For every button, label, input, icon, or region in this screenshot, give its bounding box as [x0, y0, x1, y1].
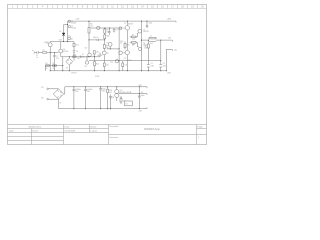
- svg-text:R12: R12: [76, 45, 79, 47]
- svg-text:C4: C4: [163, 63, 165, 65]
- svg-text:C3: C3: [151, 63, 153, 65]
- transistor Q9 clamp: [85, 61, 88, 64]
- capacitor C11 electrolytic: [84, 87, 87, 109]
- resistor R9 zobel: [147, 44, 149, 48]
- capacitor C10 electrolytic: [73, 87, 76, 109]
- wire fb bus lower: [46, 65, 63, 67]
- input terminal J1: [34, 52, 35, 54]
- resistor R4: [88, 28, 90, 33]
- svg-text:T4: T4: [63, 49, 65, 51]
- svg-text:BC556: BC556: [71, 28, 76, 30]
- svg-text:R2: R2: [46, 63, 48, 65]
- svg-text:T8: T8: [143, 43, 145, 45]
- svg-text:22k: 22k: [77, 58, 80, 60]
- svg-text:~: ~: [45, 94, 46, 96]
- wire bridge right up: [64, 87, 65, 94]
- svg-text:Name: Name: [33, 130, 40, 132]
- transistor T21 regulator: [115, 93, 119, 97]
- svg-text:R5b: R5b: [106, 36, 109, 38]
- zener D20: [110, 96, 112, 98]
- svg-text:In: In: [32, 50, 33, 52]
- capacitor C14: [108, 31, 110, 33]
- resistor R5b: [104, 35, 106, 39]
- wire bias chain x119.1: [118, 28, 120, 71]
- ruler numbers: [12, 6, 205, 9]
- svg-text:T21: T21: [120, 97, 123, 99]
- svg-text:100u: 100u: [163, 66, 167, 68]
- svg-text:B1: B1: [60, 102, 62, 104]
- wire mid bus y60.7: [89, 60, 161, 62]
- capacitor C2: [53, 56, 55, 57]
- svg-text:30V: 30V: [41, 87, 44, 89]
- svg-text:Looser: Looser: [91, 129, 98, 132]
- svg-text:L1: L1: [150, 36, 152, 38]
- resistor R14: [94, 62, 96, 66]
- svg-text:470: 470: [106, 48, 109, 50]
- title block texts: [9, 125, 203, 139]
- svg-text:R1: R1: [43, 50, 45, 52]
- capacitor C13: [138, 87, 141, 109]
- inductor L1 with R: [149, 37, 156, 41]
- svg-text:1u: 1u: [36, 57, 38, 59]
- svg-text:R16: R16: [120, 41, 123, 43]
- svg-text:T5: T5: [124, 23, 126, 25]
- svg-text:R5: R5: [106, 30, 108, 32]
- wire fet rail: [141, 21, 143, 71]
- wires regulator: [111, 87, 148, 109]
- capacitor C12b rail: [146, 25, 148, 26]
- terminal AC2: [47, 98, 49, 100]
- transistor Q3 vas: [88, 53, 92, 57]
- transistor T20 regulator: [115, 90, 119, 94]
- transistor Q6 bias: [119, 51, 123, 55]
- svg-text:Date: Date: [9, 129, 14, 132]
- wire miller: [89, 39, 97, 41]
- wire LED branch top: [64, 25, 68, 34]
- wire bus cap x114: [113, 28, 115, 30]
- svg-text:T14: T14: [110, 62, 113, 64]
- wire LED branch bottom: [63, 36, 65, 42]
- terminal AC1: [47, 88, 49, 90]
- wire diamond top stub: [68, 57, 70, 58]
- wire output node: [142, 39, 150, 41]
- svg-text:LS1: LS1: [174, 50, 177, 52]
- svg-text:BD140: BD140: [127, 60, 132, 62]
- svg-text:T12: T12: [122, 28, 125, 30]
- title block: [8, 125, 207, 145]
- resistor R11: [68, 38, 71, 40]
- resistor R3 fb: [53, 65, 57, 67]
- wire cap C2 branch: [53, 53, 55, 56]
- svg-text:68: 68: [71, 38, 73, 40]
- resistor R13 fb series: [73, 56, 76, 58]
- transistor T7 mosfet: [138, 29, 142, 33]
- capacitor C7 fb: [80, 56, 81, 58]
- driver/output stage: [127, 21, 172, 71]
- svg-text:100: 100: [96, 51, 99, 53]
- wire driver mid: [126, 30, 128, 50]
- VAS stage: [89, 21, 125, 71]
- wire bias R stub: [124, 42, 126, 44]
- svg-text:100n: 100n: [141, 95, 145, 97]
- wire r14 stubs: [94, 57, 96, 71]
- svg-text:47u: 47u: [56, 58, 59, 60]
- svg-text:220: 220: [132, 39, 135, 41]
- resistor R7 gate: [131, 36, 136, 38]
- svg-text:C7: C7: [82, 54, 84, 56]
- wire out terminal tick: [171, 40, 173, 42]
- wire input line: [35, 52, 37, 54]
- wire q4 to rail: [103, 55, 105, 63]
- svg-text:K1: K1: [126, 103, 128, 105]
- svg-text:2SJ50: 2SJ50: [143, 45, 148, 47]
- svg-text:220: 220: [132, 44, 135, 46]
- wire hbus48: [107, 48, 119, 50]
- wire AC1: [49, 88, 59, 90]
- svg-text:T10: T10: [106, 42, 109, 44]
- wire rail cap x147: [146, 21, 148, 25]
- svg-text:C1: C1: [36, 55, 38, 57]
- svg-text:T13: T13: [84, 66, 87, 68]
- svg-text:BC556: BC556: [98, 55, 103, 57]
- transistor T15 on bus: [97, 26, 100, 29]
- svg-text:BC550: BC550: [44, 42, 49, 44]
- svg-text:T20: T20: [120, 90, 123, 92]
- resistor R1 input series: [43, 52, 47, 53]
- svg-text:C2: C2: [56, 56, 58, 58]
- svg-text:4k7: 4k7: [106, 32, 109, 34]
- svg-text:Description: Description: [110, 125, 119, 128]
- svg-text:10000u: 10000u: [76, 89, 81, 91]
- capacitor C9 bus: [113, 30, 115, 31]
- wire stub x109.4: [108, 28, 110, 32]
- wire q2 vertical top: [60, 42, 62, 49]
- svg-text:R13: R13: [73, 55, 76, 57]
- svg-text:Name: Name: [91, 127, 98, 129]
- wire c branch: [160, 40, 162, 64]
- wire diamond bottom stub: [68, 65, 70, 71]
- svg-text:100n: 100n: [149, 23, 153, 25]
- svg-text:Page: Page: [198, 127, 204, 129]
- svg-text:680p: 680p: [82, 57, 86, 59]
- svg-text:R15: R15: [127, 44, 130, 46]
- junction dots amp: [50, 21, 167, 72]
- resistor R19: [103, 63, 105, 67]
- wire fb bend up: [99, 53, 101, 57]
- wire tail bus: [50, 41, 74, 43]
- svg-text:R14: R14: [96, 64, 99, 66]
- resistor R17: [93, 51, 95, 54]
- wire r17 stub: [93, 54, 95, 57]
- LED D1: [62, 33, 65, 36]
- transistor T6 driver: [125, 50, 129, 54]
- svg-text:1k: 1k: [46, 68, 48, 70]
- wire current source vertical: [67, 21, 69, 41]
- svg-text:68p: 68p: [93, 37, 96, 39]
- resistor R22 bleeder: [107, 87, 109, 109]
- transistor Q5 cascode: [108, 43, 112, 47]
- svg-text:BD139: BD139: [128, 23, 133, 25]
- svg-text:BC556: BC556: [71, 22, 76, 24]
- capacitor C3 zobel: [147, 65, 150, 68]
- capacitor C12 electrolytic: [99, 87, 102, 109]
- capacitor C1 input: [37, 51, 39, 53]
- wire gate R bottom: [130, 41, 132, 43]
- svg-text:Modifications: Modifications: [29, 126, 43, 129]
- svg-text:22k: 22k: [53, 68, 56, 70]
- capacitor C5 miller: [97, 39, 98, 41]
- wire center chain x104.7: [104, 28, 106, 29]
- svg-text:R3: R3: [53, 63, 55, 65]
- transistor Q4 vas low: [102, 51, 106, 55]
- transistor T8 mosfet: [138, 47, 141, 50]
- wire psu top rail tick: [146, 87, 148, 88]
- wire fb bus upper: [61, 56, 100, 58]
- svg-text:T11: T11: [123, 53, 126, 55]
- wire psu bottom rail tick: [146, 107, 148, 108]
- svg-text:100: 100: [125, 65, 128, 67]
- wire comp branch x74: [73, 42, 75, 44]
- svg-text:D3: D3: [66, 67, 68, 69]
- wire R4 chain x89: [88, 21, 90, 28]
- capacitor C6 comp: [73, 50, 75, 52]
- transistor Q1 diff pair: [48, 43, 52, 47]
- wire fb right drop: [62, 57, 64, 71]
- wire bridge bottom down: [58, 99, 60, 109]
- transistor T5 driver: [125, 26, 129, 30]
- svg-text:C6: C6: [76, 51, 78, 53]
- svg-text:2k: 2k: [120, 43, 122, 45]
- wire top rail end tick: [175, 21, 177, 22]
- svg-text:C5: C5: [96, 37, 98, 39]
- svg-text:4k7: 4k7: [109, 92, 112, 94]
- svg-text:D1: D1: [59, 31, 61, 33]
- svg-text:R6: R6: [106, 46, 108, 48]
- wire driver bottom: [126, 55, 128, 71]
- box K1 connector: [125, 101, 133, 106]
- svg-text:C9: C9: [116, 29, 118, 31]
- transistor T2 current source: [68, 25, 70, 27]
- wire gate R top: [130, 36, 132, 38]
- wire AC2: [49, 98, 59, 100]
- svg-text:Dateiname: Dateiname: [110, 136, 119, 139]
- svg-text:1k5: 1k5: [90, 25, 93, 27]
- bridge rectifier B1: [53, 89, 63, 99]
- svg-text:R11: R11: [68, 36, 71, 38]
- component value smudge labels amp: [36, 19, 166, 78]
- wire q9 stub: [86, 57, 88, 61]
- svg-text:220: 220: [123, 100, 126, 102]
- svg-text:2SK135: 2SK135: [143, 31, 149, 33]
- resistor R2 fb: [46, 65, 50, 67]
- svg-text:30V: 30V: [41, 97, 44, 99]
- capacitor C4: [159, 65, 162, 68]
- svg-text:LS1: LS1: [168, 38, 171, 40]
- svg-text:T7: T7: [143, 29, 145, 31]
- transistor Q10 on bus: [115, 60, 118, 63]
- transistor Q7 predriver: [119, 27, 122, 30]
- wire zobel: [147, 40, 149, 44]
- wire driver top: [126, 21, 128, 25]
- svg-text:+35V: +35V: [167, 19, 172, 21]
- svg-text:T9: T9: [107, 53, 109, 55]
- psu labels: [76, 85, 145, 112]
- resistor R6: [103, 45, 105, 49]
- resistor R15 bias: [124, 43, 126, 47]
- svg-text:T6: T6: [124, 58, 126, 60]
- resistor R5a: [104, 29, 106, 33]
- sheet border frame: [8, 5, 207, 145]
- svg-text:R7: R7: [132, 35, 134, 37]
- resistor R21: [120, 99, 122, 103]
- svg-text:07.09.2001: 07.09.2001: [65, 130, 77, 132]
- wire q1 vertical: [49, 42, 51, 43]
- transistor Q2 diff pair: [59, 49, 63, 53]
- wire psu top rail: [65, 86, 147, 88]
- resistor R18: [122, 61, 124, 71]
- diamond diode bridge D2: [66, 58, 73, 65]
- wire negative rail: [50, 70, 166, 72]
- svg-text:MOSFET-Amp: MOSFET-Amp: [144, 128, 160, 131]
- wire q2 vertical bottom: [60, 53, 62, 57]
- wire q5 down: [109, 47, 111, 49]
- top ruler strip: [8, 5, 207, 9]
- svg-text:100: 100: [106, 65, 109, 67]
- resistor R8 gate: [131, 42, 136, 44]
- svg-text:10k: 10k: [85, 48, 88, 50]
- svg-text:BC550: BC550: [63, 51, 68, 53]
- svg-text:BYV27: BYV27: [72, 73, 77, 75]
- svg-text:100u: 100u: [102, 89, 106, 91]
- transistor T1 current source: [68, 20, 70, 22]
- svg-text:R4: R4: [90, 24, 92, 26]
- svg-text:10000u: 10000u: [87, 89, 92, 91]
- wire bus y28: [91, 27, 123, 29]
- junction dots psu: [73, 86, 139, 109]
- svg-text:R22: R22: [109, 90, 112, 92]
- svg-text:100n: 100n: [151, 66, 155, 68]
- svg-text:Date: Date: [65, 126, 70, 129]
- wire fb left drop: [45, 66, 47, 71]
- wire out rtn: [166, 48, 172, 50]
- svg-text:BD249: BD249: [120, 92, 125, 94]
- svg-text:2u2: 2u2: [150, 43, 153, 45]
- resistor R12 comp: [73, 43, 75, 46]
- wire +35V top rail: [68, 20, 176, 22]
- wire psu bottom rail: [59, 108, 148, 110]
